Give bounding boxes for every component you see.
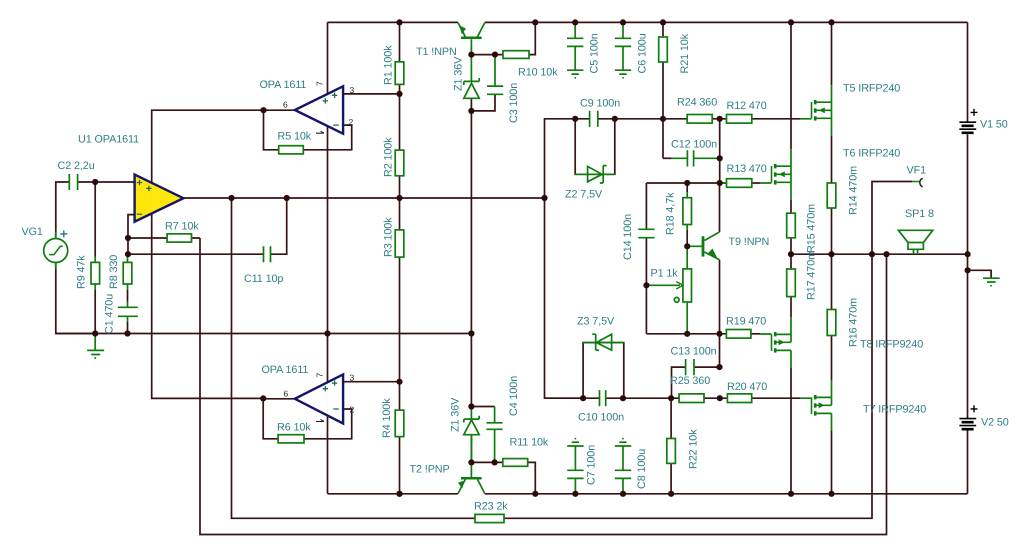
wire R18 leads [686, 183, 688, 246]
wire R1-R4 column [399, 22, 401, 493]
svg-text:R10 10k: R10 10k [518, 67, 558, 79]
resistor R12 470 [727, 115, 752, 124]
resistor R17 470m [787, 269, 796, 297]
svg-text:T9 !NPN: T9 !NPN [729, 236, 770, 248]
junction dot c12 [717, 155, 723, 161]
wire mid column down [545, 198, 584, 398]
wire Z1 column middle [470, 98, 472, 406]
op-amp U2 body [295, 86, 343, 133]
capacitor C9 100n [590, 111, 598, 127]
svg-text:R24 360: R24 360 [677, 97, 717, 109]
op-amp U1 OPA1611 [135, 175, 184, 222]
wire Z3 stubs [583, 343, 624, 399]
resistor R18 4,7k [686, 192, 688, 230]
svg-text:R2 100k: R2 100k [383, 137, 395, 177]
wire T1 node row [471, 54, 503, 56]
transistor T9 [687, 245, 701, 247]
wire R17 leads [790, 254, 792, 317]
wire R15 to output [790, 238, 792, 254]
wire top rail [328, 21, 968, 23]
capacitor C10 100n [600, 390, 606, 406]
junction dots r13 row [684, 180, 690, 186]
svg-text:C6 100u: C6 100u [637, 33, 649, 73]
capacitor C2 2,2u [69, 174, 77, 190]
op-amp OPA1611 lower [284, 373, 355, 424]
wire ground tap right [968, 270, 992, 277]
svg-text:R25 360: R25 360 [670, 375, 710, 387]
svg-text:VF1: VF1 [907, 165, 927, 177]
capacitor C6 100u [615, 22, 631, 70]
svg-text:C4 100n: C4 100n [508, 376, 520, 416]
svg-text:C5 100n: C5 100n [589, 33, 601, 73]
wire U1 plus input [95, 181, 134, 183]
svg-text:U1 OPA1611: U1 OPA1611 [78, 134, 139, 146]
wire U1 out feedback R23 [232, 182, 913, 519]
svg-text:VG1: VG1 [22, 226, 43, 238]
svg-text:OPA 1611: OPA 1611 [260, 79, 307, 91]
op-amp OPA1611 upper [283, 81, 355, 134]
capacitor C12 100n [672, 150, 720, 166]
svg-text:C8 100u: C8 100u [636, 449, 648, 489]
wire upper opamp out [264, 109, 295, 111]
mosfet T5 IRFP240 [800, 85, 832, 135]
resistor R25 360 [679, 394, 704, 403]
potentiometer P1 1k [686, 246, 688, 333]
op-amp U3 plus marks [323, 380, 338, 391]
wire bottom rail [328, 493, 968, 495]
resistor R21 10k [659, 37, 668, 62]
resistor R24 360 [687, 115, 712, 124]
svg-text:R5 10k: R5 10k [278, 131, 312, 143]
junction dots lower bias row [580, 395, 586, 401]
wire blue opamp output tie [152, 110, 264, 398]
resistor R14 470m [827, 183, 836, 208]
wire lower opamp pin2 loop [263, 398, 352, 438]
wire T9 collector up [719, 183, 721, 232]
svg-text:Z1 36V: Z1 36V [453, 56, 465, 91]
ground speaker [983, 278, 1000, 282]
wire R22 column [670, 398, 672, 494]
svg-text:R13 470: R13 470 [727, 163, 767, 175]
ground C7 [575, 438, 577, 440]
svg-text:R11 10k: R11 10k [510, 437, 549, 449]
wire R11 right down [528, 462, 536, 493]
svg-text:C3 100n: C3 100n [508, 83, 520, 123]
svg-text:R22 10k: R22 10k [688, 429, 700, 469]
resistor R23 2k [475, 514, 504, 522]
wire T2 base [470, 435, 472, 463]
junction dots opamp outs [260, 107, 266, 113]
wire T6 source to R15 [790, 199, 792, 213]
resistor R5 10k [279, 146, 304, 154]
wire R7 feedback down [200, 238, 887, 535]
wire R7 leads [128, 237, 200, 239]
junction dots ground rail [92, 330, 98, 336]
svg-text:3: 3 [350, 85, 355, 95]
resistor R10 10k [503, 51, 529, 59]
zener Z1 bottom [470, 407, 472, 463]
resistor R4 100k [395, 410, 404, 437]
svg-text:R8 330: R8 330 [108, 255, 120, 289]
svg-text:R12 470: R12 470 [727, 100, 767, 112]
wire upper opamp pin2 loop [264, 110, 352, 150]
svg-text:R23 2k: R23 2k [474, 501, 508, 513]
transistor T2 [458, 479, 465, 493]
zener Z1 top [470, 55, 472, 82]
svg-text:T5 IRFP240: T5 IRFP240 [843, 83, 900, 95]
wire T5 drain column [831, 22, 833, 85]
resistor R22 10k [667, 439, 676, 464]
resistor R3 100k [395, 230, 404, 257]
wire lower opamp out [263, 398, 295, 400]
capacitor C7 100n [567, 446, 583, 494]
junction dots T2 row [468, 403, 474, 409]
svg-text:2: 2 [349, 117, 354, 127]
op-amp U3 body [295, 374, 343, 423]
svg-text:R21 10k: R21 10k [679, 33, 691, 73]
junction dots u1 input [92, 179, 98, 185]
junction dots output line [788, 251, 794, 257]
svg-text:R14 470m: R14 470m [848, 166, 860, 215]
wire T2 node row [471, 461, 502, 463]
wire bias line C9 to T5 gate [663, 118, 800, 120]
wire T6 drain column [790, 22, 792, 149]
resistor R20 470 [727, 394, 751, 403]
wire right mid column [719, 119, 721, 183]
wire battery column right [967, 22, 969, 493]
junction dots bias row [572, 116, 578, 122]
resistor R15 470m [787, 213, 796, 238]
svg-text:V2 50: V2 50 [981, 417, 1009, 429]
svg-text:R18 4,7k: R18 4,7k [665, 192, 677, 235]
svg-text:P1 1k: P1 1k [651, 268, 679, 280]
wire C12 row [663, 157, 672, 159]
resistor R2 100k [395, 150, 404, 176]
wire R21 column [662, 22, 664, 158]
wire R14 to output [831, 208, 833, 254]
junction dots T1 row [468, 52, 474, 58]
wire R19 right to T8 gate [751, 333, 760, 335]
svg-text:Z1 36V: Z1 36V [450, 397, 462, 432]
svg-text:R3 100k: R3 100k [383, 217, 395, 257]
svg-text:V1 50: V1 50 [980, 119, 1008, 131]
wire R13 row [646, 182, 760, 184]
wire U1 minus input [128, 215, 135, 255]
svg-text:SP1 8: SP1 8 [905, 208, 934, 220]
svg-text:C9 100n: C9 100n [580, 98, 620, 110]
svg-text:OPA 1611: OPA 1611 [262, 364, 309, 376]
capacitor C14 100n [638, 229, 654, 237]
wire ground rail [56, 333, 472, 335]
wire T8 drain down [790, 367, 792, 493]
svg-text:C11 10p: C11 10p [244, 273, 283, 285]
wire C11 line [128, 198, 287, 254]
op-amp U1 body [135, 175, 184, 222]
op-amp U1 plus marks [137, 180, 152, 191]
wire R16 leads [831, 254, 833, 380]
ground C8 [622, 438, 624, 440]
plus VG1 [60, 230, 67, 237]
wire Z2 stubs [575, 119, 615, 175]
mosfet T8 IRFP9240 [760, 317, 791, 367]
wire T9 row [646, 333, 726, 335]
vf1 pin symbol [912, 181, 920, 183]
resistor R8 330 [127, 257, 129, 291]
svg-text:R19 470: R19 470 [726, 316, 766, 328]
wire C13 loop [672, 334, 720, 398]
capacitor C5 100n [567, 22, 583, 70]
junction dot P1 wiper [643, 282, 649, 288]
wire T5 source to R14 [831, 135, 833, 183]
op-amp U2 offset arrow [316, 131, 324, 133]
wire C4 [471, 406, 494, 408]
svg-text:T1 !NPN: T1 !NPN [416, 46, 457, 58]
ground left [87, 334, 104, 355]
svg-text:C10 100n: C10 100n [578, 412, 624, 424]
zener Z2 7,5V [575, 173, 615, 175]
op-amp U1 minus mark [137, 213, 142, 215]
svg-text:7: 7 [315, 373, 325, 378]
wire C14 column [645, 183, 647, 334]
svg-text:C7 100n: C7 100n [586, 445, 598, 485]
junction dots r1 column [396, 91, 402, 97]
wire T9 emitter down [719, 260, 721, 334]
svg-text:C12 100n: C12 100n [671, 139, 717, 151]
transistor T1 [458, 23, 465, 37]
wire lower opamp pin3 [343, 381, 399, 383]
ground C6 [615, 70, 631, 74]
wire C3 [471, 94, 495, 111]
svg-text:T2 !PNP: T2 !PNP [410, 464, 450, 476]
resistor R7 10k [167, 234, 191, 242]
svg-text:C14 100n: C14 100n [622, 214, 634, 260]
svg-text:7: 7 [315, 81, 325, 86]
svg-text:C2 2,2u: C2 2,2u [58, 160, 95, 172]
svg-text:R20 470: R20 470 [727, 381, 767, 393]
wire R8 C1 column [127, 254, 129, 333]
resistor R9 47k [94, 257, 96, 291]
mosfet T6 IRFP240 [760, 149, 791, 199]
capacitor C4 100n [494, 407, 496, 463]
svg-text:R1 100k: R1 100k [383, 45, 395, 85]
zener Z3 7,5V [583, 342, 624, 344]
capacitor C1 470u [127, 302, 129, 323]
svg-text:R4 100k: R4 100k [381, 398, 393, 438]
op-amp U2 minus mark [333, 124, 338, 126]
battery V1 50 [959, 122, 976, 129]
wire VG1 bottom to ground rail [56, 262, 95, 333]
svg-text:3: 3 [350, 373, 355, 383]
battery V2 50 [959, 419, 976, 426]
wire output line [791, 253, 968, 255]
svg-text:C13 100n: C13 100n [671, 346, 717, 358]
junction dot C13 [716, 364, 722, 370]
wire T7 drain down [831, 430, 833, 493]
resistor R11 10k [503, 459, 528, 467]
svg-text:T7 IRFP9240: T7 IRFP9240 [863, 404, 926, 416]
svg-text:Z3 7,5V: Z3 7,5V [577, 316, 615, 328]
wire bottom bias line [545, 397, 801, 399]
ground C5 [567, 70, 583, 74]
svg-text:T8 IRFP9240: T8 IRFP9240 [860, 339, 923, 351]
junction dots T9 row [684, 331, 690, 337]
junction dots signal line [228, 195, 234, 201]
wire signal line U1 output [183, 197, 544, 199]
speaker SP1 8 [898, 230, 932, 254]
wire C2 right to node [78, 181, 96, 183]
wire Z2 C9 vertical link [545, 119, 664, 198]
junction dots top rail [396, 19, 402, 25]
svg-text:R15 470m: R15 470m [806, 204, 818, 253]
svg-text:R9 47k: R9 47k [76, 255, 88, 289]
mosfet T7 IRFP9240 [800, 380, 832, 430]
svg-text:C1 470u: C1 470u [104, 294, 116, 334]
capacitor C3 100n [487, 86, 503, 94]
capacitor C11 10p [264, 246, 271, 262]
svg-text:R7 10k: R7 10k [165, 221, 199, 233]
junction dot z1 c3 [468, 108, 474, 114]
wire R10 right up [529, 22, 535, 54]
wire upper opamp pin3 [343, 93, 399, 95]
capacitor C8 100u [615, 446, 631, 494]
wire VG1 top to C2 [56, 182, 70, 239]
wire left supply column [327, 22, 329, 493]
resistor R1 100k [395, 62, 404, 85]
svg-text:2: 2 [350, 405, 355, 415]
op-amp U2 plus marks [323, 93, 338, 104]
svg-text:Z2 7,5V: Z2 7,5V [565, 189, 603, 201]
junction dot T9 base [684, 243, 690, 249]
svg-text:T6 IRFP240: T6 IRFP240 [843, 148, 900, 160]
junction dots bottom rail [396, 491, 402, 497]
op-amp U3 minus mark [333, 408, 338, 410]
resistor R6 10k [278, 435, 304, 443]
resistor R13 470 [720, 182, 727, 184]
wire R9 column [94, 182, 96, 334]
capacitor C13 100n [686, 359, 694, 375]
svg-text:R6 10k: R6 10k [277, 422, 311, 434]
resistor R19 470 [726, 330, 751, 339]
svg-text:6: 6 [284, 389, 289, 399]
op-amp U3 offset arrow [316, 420, 324, 422]
svg-text:R17 470m: R17 470m [806, 251, 818, 300]
resistor R16 470m [827, 310, 836, 336]
svg-text:6: 6 [283, 100, 288, 110]
svg-text:R16 470m: R16 470m [848, 298, 860, 347]
source VG1 [44, 239, 68, 263]
